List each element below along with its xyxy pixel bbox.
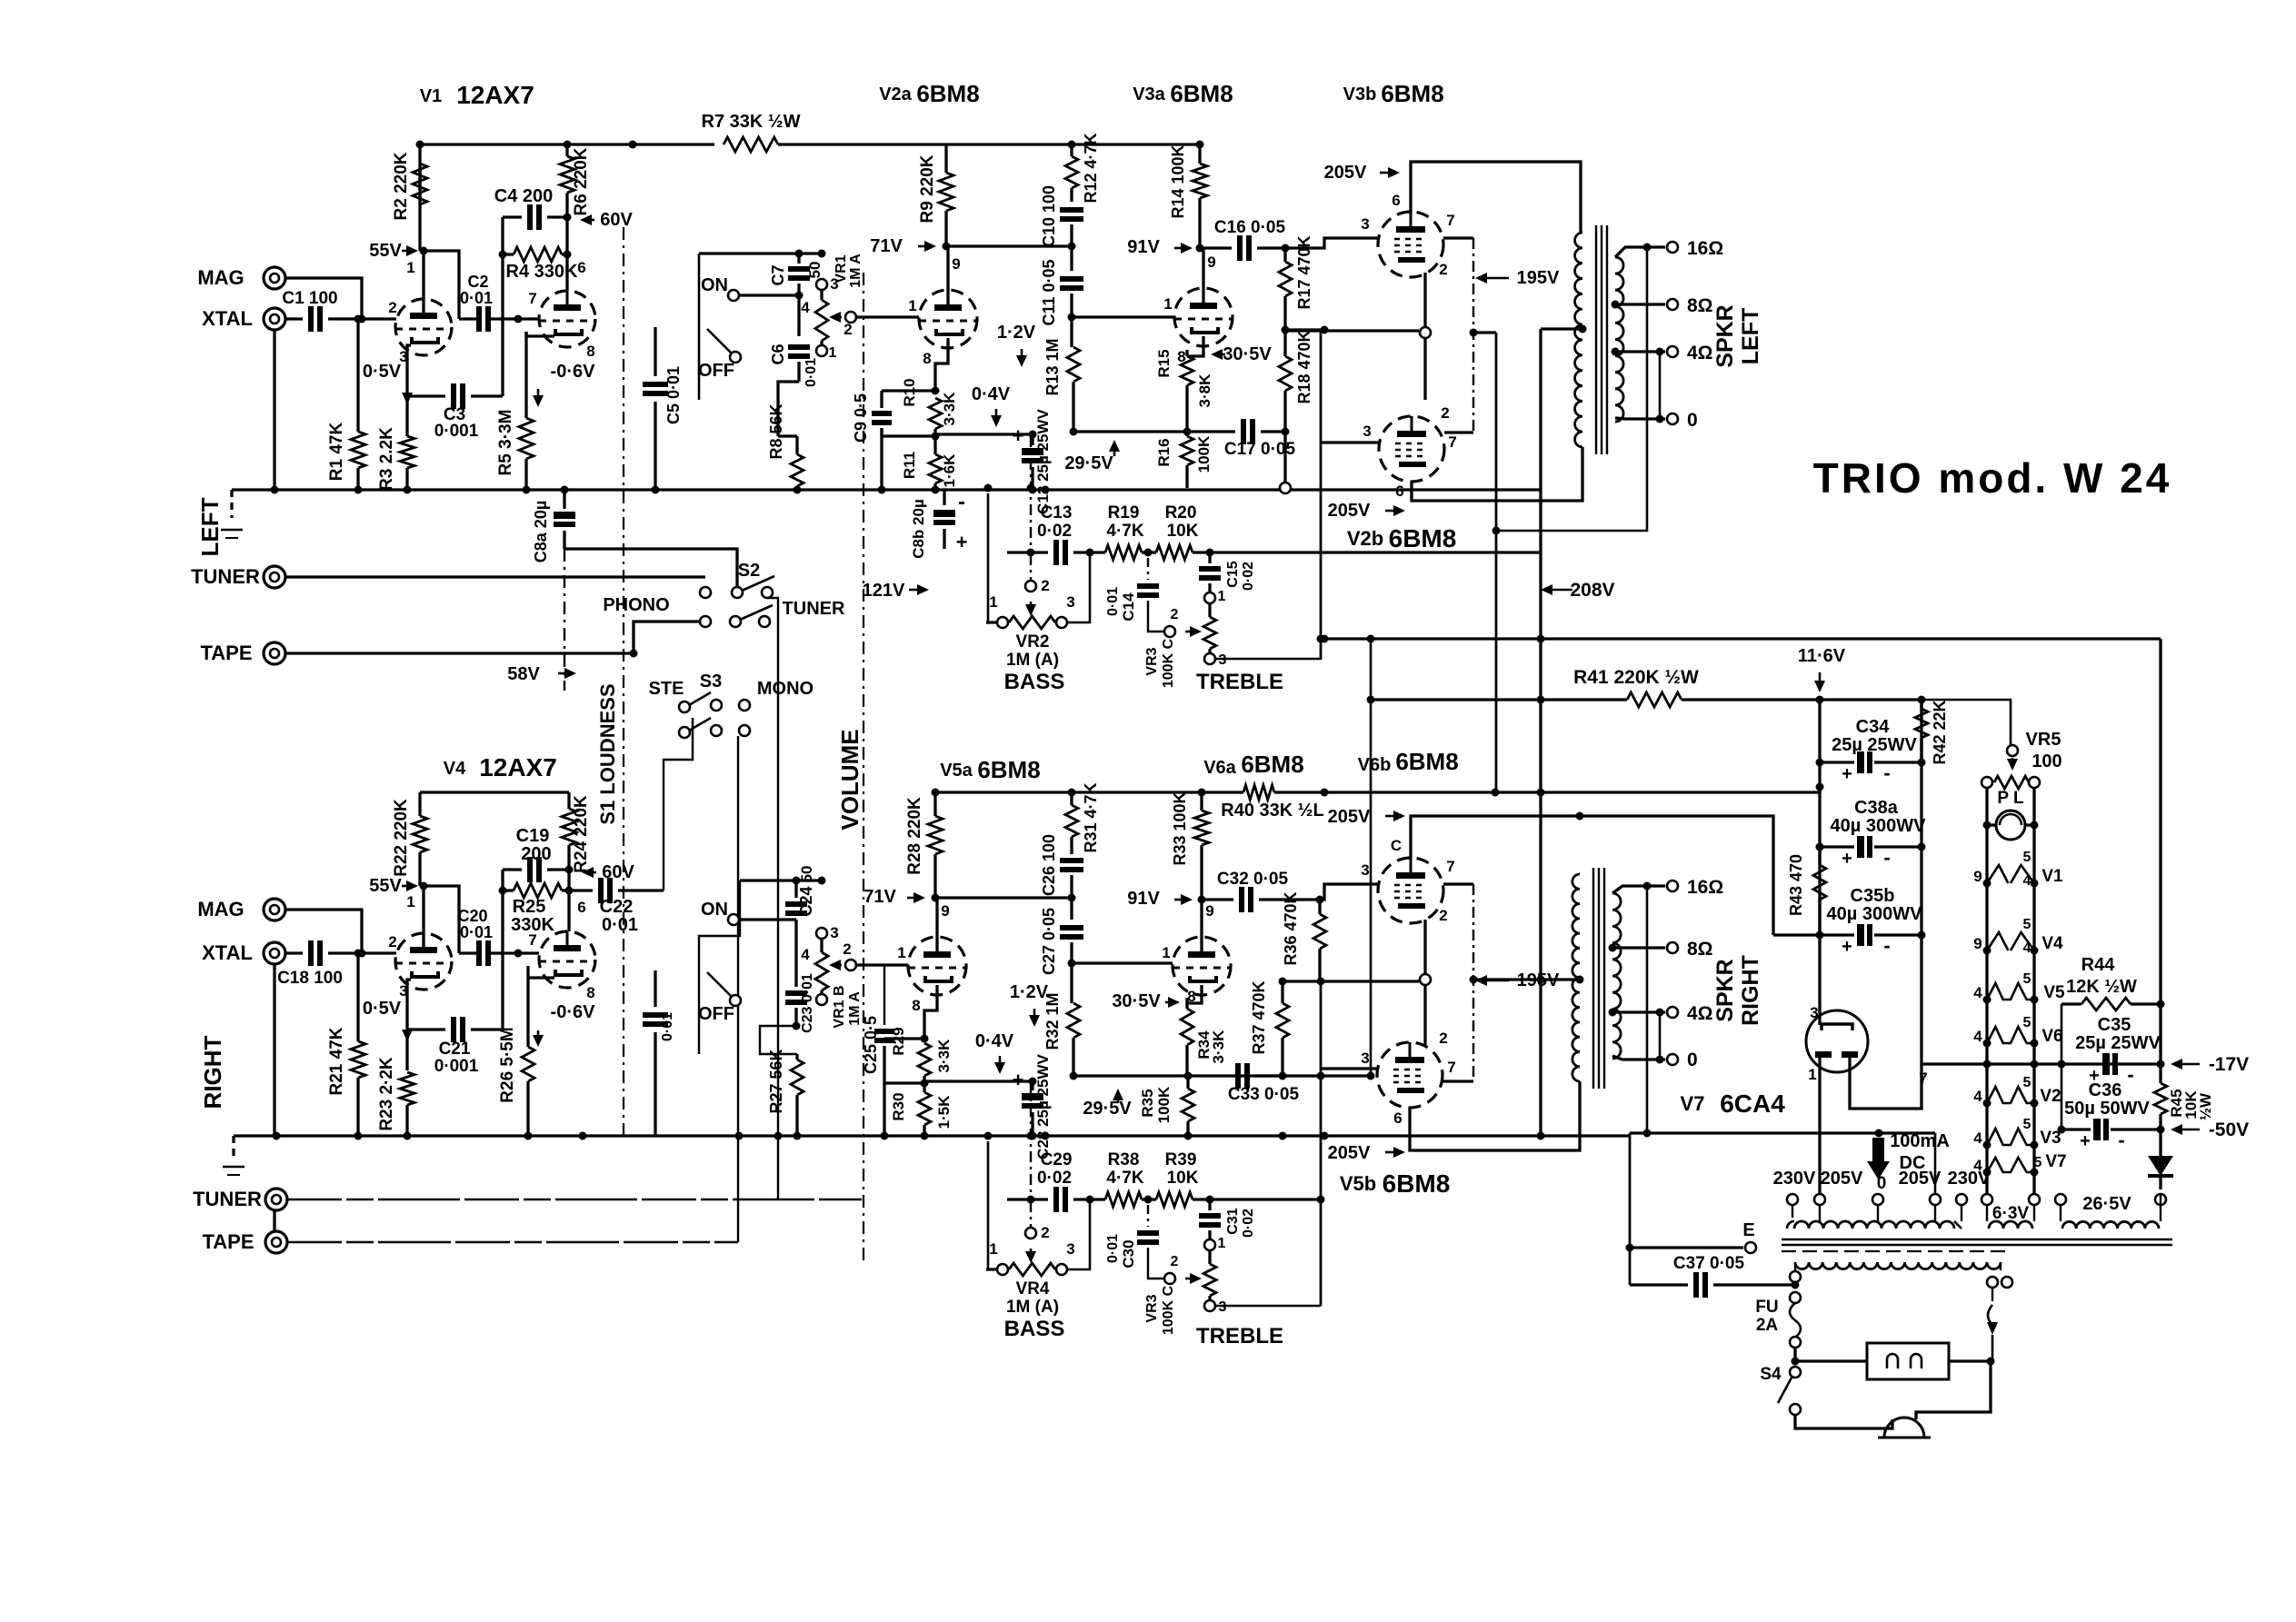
svg-text:SPKR: SPKR (1712, 959, 1738, 1021)
wire XTAL to C1 (285, 317, 303, 320)
svg-text:330K: 330K (511, 915, 554, 935)
label S1 LOUDNESS (596, 683, 619, 824)
wire -17V line (1922, 1060, 2165, 1069)
wire tuner right drop (273, 1210, 275, 1231)
svg-text:50: 50 (806, 262, 824, 279)
capacitor C23b 0.01 lower (643, 970, 675, 1136)
dash line loudness link bottom (0, 0, 1, 1)
pin 1 V4a (406, 893, 414, 911)
pin 2 V6b (1439, 907, 1447, 924)
svg-text:1: 1 (1808, 1066, 1816, 1083)
resistor R33 100K (1171, 791, 1209, 900)
svg-text:R27 56K: R27 56K (767, 1049, 785, 1113)
pin 2 V3b (1439, 261, 1447, 278)
wire OT-R CT to 208V line (1473, 976, 1584, 984)
svg-text:6: 6 (577, 259, 585, 276)
svg-text:R11: R11 (901, 452, 918, 479)
svg-text:55V: 55V (369, 876, 402, 896)
capacitor C23 0.01 (785, 929, 815, 1033)
svg-text:5: 5 (2023, 1015, 2031, 1030)
svg-text:TAPE: TAPE (202, 1230, 254, 1253)
svg-text:TRIO mod. W 24: TRIO mod. W 24 (1813, 454, 2172, 502)
capacitor C3 0.001 (407, 383, 503, 441)
wire C2 to V1b grid (488, 315, 539, 323)
svg-text:V6: V6 (2041, 1027, 2062, 1046)
svg-text:1: 1 (1162, 944, 1170, 961)
input terminal XTAL (left) (202, 307, 285, 330)
svg-text:C9 0·5: C9 0·5 (852, 393, 870, 443)
tube V3b output pentode (1378, 212, 1443, 277)
node R17/R18 (1282, 326, 1329, 334)
input terminal TAPE (right) (202, 1230, 287, 1253)
VR3 wiper upper (1164, 607, 1202, 637)
wire primary right lead (1987, 1262, 2012, 1301)
tube V6b output pentode (1378, 858, 1443, 923)
svg-text:91V: 91V (1127, 889, 1160, 909)
label RIGHT channel (199, 1035, 226, 1109)
wire TAPE right (287, 1241, 738, 1244)
svg-text:R33 100K: R33 100K (1171, 791, 1189, 865)
svg-text:205V: 205V (1821, 1169, 1863, 1189)
capacitor C26 100 (1040, 834, 1083, 898)
svg-text:C25 0·5: C25 0·5 (862, 1016, 880, 1074)
svg-text:205V: 205V (1899, 1169, 1942, 1189)
wire heater rail left (1983, 788, 1992, 1195)
label 71V lower (863, 887, 925, 907)
svg-text:R2 220K: R2 220K (392, 152, 411, 220)
pin 2 V5b (1439, 1030, 1447, 1047)
wire top rail to R12/R14 (946, 141, 1204, 149)
label 205V top (1324, 163, 1400, 183)
resistor R32 1M (1043, 963, 1080, 1076)
label BASS upper (1004, 670, 1065, 694)
svg-text:8Ω: 8Ω (1687, 939, 1713, 960)
svg-text:MAG: MAG (197, 266, 244, 289)
svg-text:V4: V4 (2041, 934, 2063, 953)
pin 1 V6a (1162, 944, 1170, 961)
svg-text:7: 7 (1446, 858, 1454, 875)
switch S1b ON contact (701, 900, 796, 925)
svg-text:3: 3 (1066, 1240, 1074, 1258)
svg-text:C13: C13 (1041, 503, 1073, 522)
svg-text:BASS: BASS (1004, 670, 1065, 694)
label VR3b 100K C (1144, 1285, 1176, 1335)
svg-text:5: 5 (2023, 971, 2031, 987)
label 0.4V (972, 384, 1011, 427)
svg-text:-: - (1883, 846, 1890, 869)
output transformer left primary (1575, 233, 1582, 447)
svg-text:-0·6V: -0·6V (551, 1002, 596, 1022)
pin 3 V2b (1363, 423, 1371, 440)
svg-text:R14 100K: R14 100K (1169, 144, 1187, 218)
wire R32/R34 bottoms (1070, 1072, 1287, 1080)
svg-text:1M (A): 1M (A) (1006, 1298, 1059, 1317)
svg-text:C15: C15 (1225, 561, 1241, 587)
pin 8 V4b (586, 984, 594, 1001)
svg-text:1: 1 (406, 893, 414, 911)
wire V4b cathode (528, 976, 554, 979)
svg-text:5: 5 (2023, 917, 2031, 932)
svg-text:1: 1 (908, 297, 916, 314)
input terminal TAPE (left) (200, 642, 285, 664)
label tube V4 12AX7 (444, 753, 557, 781)
label V2b 6BM8 (1347, 524, 1457, 552)
svg-text:C28 25µ 25WV: C28 25µ 25WV (1034, 1054, 1052, 1159)
capacitor C5 0.01 (643, 327, 683, 490)
svg-text:8: 8 (923, 350, 931, 367)
svg-text:V5b: V5b (1340, 1172, 1376, 1195)
svg-text:V1: V1 (2041, 867, 2063, 886)
pot VR1b 1M A (801, 924, 863, 1029)
capacitor C35 25u 25WV (2075, 1015, 2161, 1086)
capacitor C2 0.01 (467, 273, 488, 332)
wire 71V feed vertical (698, 254, 701, 400)
svg-text:R40 33K ½L: R40 33K ½L (1221, 801, 1323, 821)
svg-text:3·3K: 3·3K (941, 392, 958, 426)
svg-text:STE: STE (649, 679, 684, 699)
wire E riser (1626, 1133, 1634, 1252)
svg-text:C8a 20µ: C8a 20µ (532, 501, 550, 562)
capacitor C4 200 (494, 186, 572, 230)
capacitor C25 0.5 (862, 965, 894, 1136)
svg-text:BASS: BASS (1004, 1317, 1065, 1341)
pot VR4 1M(A) bass lower (986, 1199, 1090, 1276)
svg-text:MAG: MAG (197, 898, 244, 920)
capacitor C8b 20u (910, 490, 955, 559)
label C15 value (1241, 562, 1256, 591)
power transformer core (1782, 1239, 2172, 1251)
wire V5b cathode 205V notch (1410, 1081, 1580, 1150)
tube V4b triode (539, 931, 595, 988)
wire V6a plate (1200, 900, 1203, 951)
label MONO (757, 679, 814, 699)
svg-text:V5: V5 (2043, 983, 2065, 1002)
pot VR1 1M (A) (801, 254, 863, 361)
dash link S3 (692, 718, 694, 738)
svg-text:4: 4 (1973, 1028, 1982, 1045)
svg-text:R1 47K: R1 47K (327, 423, 346, 482)
label 1.2V lower (1010, 982, 1049, 1027)
wire 71V to C10/C11 (946, 243, 1076, 251)
capacitor C38a 40u 300WV (1816, 798, 1927, 869)
svg-text:3: 3 (1361, 861, 1369, 879)
svg-text:0·02: 0·02 (1241, 562, 1256, 591)
svg-text:V6a: V6a (1203, 758, 1236, 778)
svg-text:40µ 300WV: 40µ 300WV (1827, 904, 1923, 924)
wire input ground drop (271, 330, 279, 494)
wire plug right (1916, 1361, 1991, 1419)
node R10/R11 junction (882, 428, 940, 441)
wire V4a plate out (459, 951, 479, 954)
pot VR5 100 (1982, 730, 2062, 789)
svg-text:-: - (2127, 1063, 2133, 1086)
label tube V6a 6BM8 (1203, 751, 1303, 778)
pin 3 V4a (399, 982, 407, 1000)
label 0.5V (363, 362, 413, 404)
svg-text:60V: 60V (600, 210, 633, 230)
capacitor C21 0.001 (407, 1017, 503, 1076)
wire interlock left (1795, 1359, 1867, 1362)
svg-text:V3b: V3b (1343, 85, 1377, 104)
wire TUNER left (285, 575, 705, 578)
resistor R39 10K (1148, 1150, 1214, 1207)
label V7 6CA4 (1681, 1090, 1786, 1118)
heater V4 (1973, 917, 2063, 956)
svg-text:C2: C2 (467, 273, 488, 291)
svg-text:0·02: 0·02 (1241, 1209, 1256, 1238)
wire 71V to C26/C27 (935, 894, 1076, 902)
resistor R9 220K (918, 144, 953, 246)
label TRIO mod. W24 (1813, 454, 2172, 502)
label -0.6V (533, 362, 595, 407)
node 55V right (420, 882, 460, 954)
resistor R37 470K (1250, 980, 1289, 1076)
svg-text:29·5V: 29·5V (1064, 453, 1113, 473)
svg-text:205V: 205V (1328, 1143, 1371, 1163)
resistor R15 3.3K (1155, 349, 1193, 432)
capacitor C35b 40u 300WV (1820, 886, 1926, 957)
svg-text:60V: 60V (602, 862, 634, 882)
svg-text:-0·6V: -0·6V (551, 362, 596, 382)
pin 6 V1b (577, 259, 585, 276)
wire V2b cathode 205V notch (1412, 447, 1582, 501)
svg-text:SPKR: SPKR (1712, 304, 1738, 367)
resistor R27 56K (767, 1049, 804, 1136)
svg-text:3: 3 (1361, 215, 1369, 233)
svg-text:3·3K: 3·3K (1210, 1030, 1227, 1064)
arrow 100mA (1867, 1138, 1890, 1179)
svg-text:+: + (2080, 1131, 2091, 1151)
label 30.5V (1211, 344, 1272, 364)
capacitor C18 100 (277, 940, 365, 988)
wire long vertical 1508 (1367, 635, 1375, 1080)
svg-text:1: 1 (897, 944, 905, 961)
svg-text:100K: 100K (1155, 1086, 1173, 1123)
svg-text:1M A: 1M A (848, 254, 863, 288)
resistor R5 3.3M (496, 332, 534, 490)
capacitor C37 0.05 (1630, 1248, 1795, 1298)
resistor R44 12K 1/2W (2061, 955, 2165, 1010)
wire V1a cathode (407, 345, 411, 436)
resistor R6 220K (560, 144, 591, 291)
svg-text:+: + (1013, 1069, 1024, 1091)
pin 8 V2a (923, 350, 931, 367)
svg-text:2: 2 (1041, 577, 1049, 594)
label 121V (863, 581, 929, 601)
svg-text:6: 6 (1392, 192, 1400, 209)
pin 2 V4a (388, 933, 396, 950)
wire R18 to bus circle (1280, 432, 1291, 493)
svg-text:C27 0·05: C27 0·05 (1040, 908, 1058, 975)
svg-text:9: 9 (952, 255, 960, 273)
svg-text:195V: 195V (1517, 268, 1560, 288)
wire V3a plate (1202, 248, 1204, 303)
svg-text:R7 33K ½W: R7 33K ½W (702, 112, 801, 132)
input terminal TUNER (left) (191, 565, 285, 588)
svg-text:0·4V: 0·4V (975, 1031, 1014, 1051)
svg-text:C11 0·05: C11 0·05 (1040, 259, 1058, 325)
wire tap 16ohm right (1612, 877, 1723, 898)
svg-text:C5 0·01: C5 0·01 (664, 366, 683, 424)
wire R13/R15 bottoms (1070, 428, 1236, 436)
capacitor C12 25u 25WV (1013, 409, 1052, 514)
svg-text:R24 220K: R24 220K (572, 795, 591, 873)
label 208V (1541, 580, 1615, 601)
wire V6b plate loop (1411, 812, 1773, 936)
pot VR3b 100K C treble lower (1203, 1236, 1227, 1315)
svg-text:R13 1M: R13 1M (1043, 338, 1062, 395)
pin 6 V2b (1395, 483, 1403, 500)
pin 7 V5b (1447, 1059, 1455, 1076)
wire input ground drop right (273, 964, 275, 1136)
pilot lamp PL (1987, 789, 2034, 840)
svg-text:C6: C6 (769, 343, 787, 364)
power transformer primary winding (1795, 1262, 2001, 1269)
node 91V (1196, 244, 1204, 253)
svg-text:TAPE: TAPE (200, 642, 252, 664)
wire tap 0 right (1612, 1050, 1698, 1070)
capacitor C20 0.01 (457, 907, 493, 966)
label C8b value (956, 490, 968, 553)
capacitor C1 100 (282, 289, 358, 332)
label 91V arrow (1127, 237, 1193, 257)
switch S3 ste/mono (679, 692, 750, 738)
svg-text:C26 100: C26 100 (1040, 834, 1058, 896)
resistor R3 2.2K (377, 427, 414, 491)
svg-text:3·3K: 3·3K (935, 1039, 953, 1073)
power transformer HV winding (1787, 1205, 1962, 1229)
pin 2 V2b (1441, 404, 1449, 422)
label C14 value (1105, 587, 1121, 616)
wire tap 0 left (1615, 410, 1698, 431)
resistor R38 4.7K (1090, 1150, 1148, 1207)
svg-text:6: 6 (1395, 483, 1403, 500)
svg-text:26·5V: 26·5V (2082, 1194, 2131, 1214)
tube V5a pentode(triode sect) (908, 937, 966, 995)
node 71V (943, 243, 951, 251)
svg-text:9: 9 (941, 902, 949, 920)
dash line volume link (863, 273, 864, 1263)
svg-text:-: - (2118, 1129, 2124, 1151)
label C13 value (1037, 522, 1072, 541)
pin 7 V4b (528, 931, 536, 949)
wire V3b pin7 to pin7 V2b (1443, 238, 1496, 433)
svg-text:OFF: OFF (698, 361, 734, 381)
label BASS lower (1004, 1317, 1065, 1341)
svg-text:121V: 121V (863, 581, 905, 601)
svg-text:100: 100 (2031, 751, 2061, 771)
label C30 value (1105, 1234, 1121, 1263)
svg-text:6BM8: 6BM8 (1389, 524, 1457, 552)
svg-text:4·7K: 4·7K (1106, 522, 1143, 541)
wire tap 8ohm left (1612, 295, 1713, 316)
label VOLUME (836, 729, 863, 830)
wire S2 drop (777, 636, 779, 1199)
svg-text:V5a: V5a (940, 761, 973, 781)
resistor R17 470K (1279, 235, 1313, 330)
svg-text:10K: 10K (1167, 1169, 1199, 1188)
svg-text:C12 25µ 25WV: C12 25µ 25WV (1034, 409, 1052, 514)
wire S4 to plug (1795, 1415, 1892, 1428)
svg-text:4: 4 (2023, 873, 2031, 889)
wire long vertical 1646 (1495, 333, 1498, 792)
svg-text:R18 470K: R18 470K (1295, 330, 1313, 403)
label tube V6b 6BM8 (1358, 748, 1459, 775)
wire V1a plate out to C2 (459, 317, 479, 320)
node R36/R37 (1279, 978, 1325, 986)
wire 58V vertical (564, 549, 565, 691)
svg-text:R22 220K: R22 220K (392, 799, 411, 877)
wire TAPE left (285, 650, 638, 658)
output transformer right core (1593, 868, 1604, 1089)
svg-text:R17 470K: R17 470K (1295, 235, 1313, 309)
label 58V arrow (507, 664, 576, 684)
label 195V lower (1475, 970, 1560, 990)
wire TUNER right (287, 1199, 862, 1201)
capacitor C17 0.05 (1224, 419, 1296, 459)
svg-text:V4: V4 (444, 759, 466, 779)
wire S3 drop (737, 736, 739, 1242)
tube V6a pentode(triode sect) (1173, 937, 1231, 995)
svg-text:58V: 58V (507, 664, 540, 684)
resistor R1 47K (327, 319, 365, 490)
resistor R4 330K (499, 247, 579, 282)
tube V2b output pentode (1379, 416, 1444, 482)
svg-text:208V: 208V (1570, 580, 1614, 601)
label V5b 6BM8 (1340, 1169, 1451, 1198)
svg-text:50: 50 (798, 866, 815, 883)
label tube V1 12AX7 (420, 81, 534, 109)
svg-text:2: 2 (844, 321, 852, 338)
svg-text:C4 200: C4 200 (494, 186, 554, 206)
svg-text:+: + (1013, 424, 1024, 447)
wire V2b grid from C17 node (1321, 331, 1379, 660)
resistor R19 4.7K (1090, 503, 1148, 560)
svg-text:LEFT: LEFT (196, 497, 224, 556)
VR4 wiper arrow (1025, 1203, 1050, 1263)
capacitor C6 0.01 (769, 295, 819, 436)
svg-text:R37 470K: R37 470K (1250, 980, 1268, 1054)
chassis mark right (223, 1136, 245, 1175)
svg-text:R32 1M: R32 1M (1043, 992, 1062, 1050)
svg-text:3: 3 (1066, 593, 1074, 611)
svg-text:R25: R25 (513, 897, 546, 917)
svg-text:R29: R29 (890, 1027, 907, 1055)
svg-text:4Ω: 4Ω (1687, 1003, 1713, 1024)
wire V7 cathode riser (0, 0, 1, 1)
VR1b wiper (829, 940, 856, 970)
output transformer right primary (1572, 874, 1580, 1081)
svg-text:R9 220K: R9 220K (918, 154, 937, 223)
label 71V arrow (870, 236, 936, 256)
svg-text:6: 6 (577, 899, 585, 916)
svg-text:ON: ON (701, 275, 728, 295)
svg-text:4: 4 (801, 946, 810, 963)
svg-text:12K ½W: 12K ½W (2066, 977, 2137, 997)
svg-text:1·2V: 1·2V (997, 323, 1036, 343)
capacitor C34 25u 25WV (1820, 717, 1926, 784)
capacitor C9 0.5 (852, 393, 892, 490)
wire V1b cathode (526, 332, 554, 338)
wire primary left lead (1790, 1262, 1801, 1289)
wire C36 left riser (2061, 1064, 2063, 1129)
svg-text:C38a: C38a (1854, 798, 1899, 818)
capacitor C10 100 (1040, 185, 1083, 247)
label tube V5a 6BM8 (940, 756, 1040, 783)
tube V1b triode (539, 291, 595, 347)
svg-text:6BM8: 6BM8 (1395, 748, 1458, 775)
svg-text:RIGHT: RIGHT (199, 1035, 226, 1109)
